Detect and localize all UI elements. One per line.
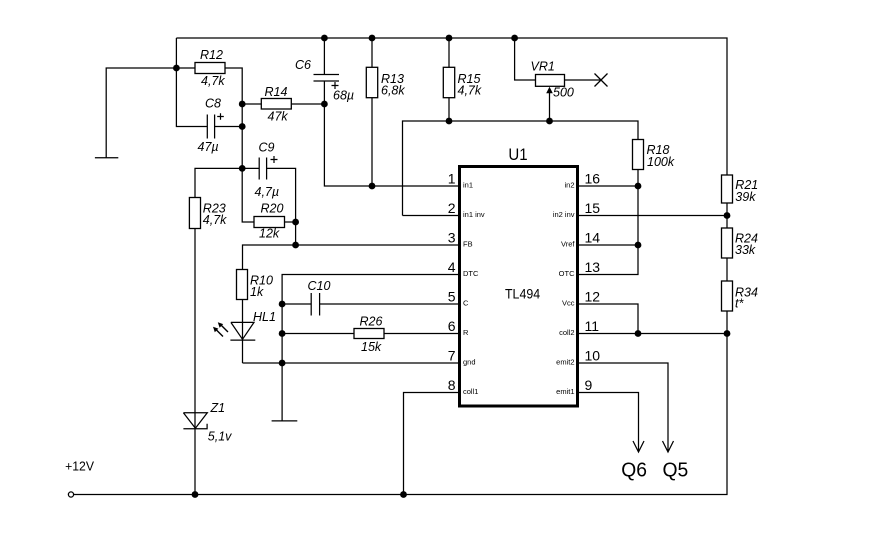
svg-text:15k: 15k <box>361 340 382 354</box>
svg-text:12k: 12k <box>259 227 280 241</box>
svg-text:10: 10 <box>585 348 601 364</box>
svg-text:3: 3 <box>448 230 456 246</box>
svg-text:500: 500 <box>553 86 574 100</box>
svg-text:+12V: +12V <box>65 459 94 474</box>
svg-text:Vref: Vref <box>561 240 575 249</box>
svg-text:t*: t* <box>735 297 744 311</box>
svg-text:33k: 33k <box>735 243 756 257</box>
svg-text:emit1: emit1 <box>556 387 574 396</box>
svg-text:1k: 1k <box>250 285 264 299</box>
svg-text:OTC: OTC <box>559 269 575 278</box>
svg-text:4,7k: 4,7k <box>458 84 482 98</box>
svg-text:8: 8 <box>448 377 456 393</box>
svg-text:emit2: emit2 <box>556 358 574 367</box>
svg-text:DTC: DTC <box>463 269 479 278</box>
svg-text:4,7µ: 4,7µ <box>255 185 280 199</box>
svg-text:Q6: Q6 <box>621 458 647 481</box>
svg-text:68µ: 68µ <box>333 89 354 103</box>
svg-text:15: 15 <box>585 200 601 216</box>
svg-text:TL494: TL494 <box>505 286 540 302</box>
svg-text:47k: 47k <box>268 110 289 124</box>
svg-text:4,7k: 4,7k <box>201 74 225 88</box>
svg-text:R20: R20 <box>261 202 284 216</box>
svg-text:5,1v: 5,1v <box>208 430 232 444</box>
svg-text:4: 4 <box>448 259 456 275</box>
svg-text:Q5: Q5 <box>663 458 689 481</box>
svg-text:11: 11 <box>585 318 600 334</box>
svg-text:1: 1 <box>448 171 456 187</box>
svg-text:Vcc: Vcc <box>562 299 575 308</box>
svg-text:Z1: Z1 <box>210 401 226 415</box>
svg-text:14: 14 <box>585 230 601 246</box>
svg-text:in2: in2 <box>564 181 574 190</box>
svg-text:4,7k: 4,7k <box>203 213 227 227</box>
svg-text:R: R <box>463 328 469 337</box>
svg-text:5: 5 <box>448 289 456 305</box>
svg-text:R12: R12 <box>200 48 223 62</box>
svg-text:coll1: coll1 <box>463 387 478 396</box>
svg-text:in1 inv: in1 inv <box>463 210 485 219</box>
svg-text:FB: FB <box>463 240 473 249</box>
svg-text:C6: C6 <box>295 58 311 72</box>
svg-text:100k: 100k <box>647 155 675 169</box>
svg-text:C8: C8 <box>205 97 221 111</box>
svg-text:7: 7 <box>448 348 456 364</box>
svg-text:U1: U1 <box>508 145 527 164</box>
svg-text:R26: R26 <box>360 315 383 329</box>
svg-text:C9: C9 <box>259 141 275 155</box>
svg-text:12: 12 <box>585 289 601 305</box>
svg-text:9: 9 <box>585 377 593 393</box>
svg-text:HL1: HL1 <box>253 310 276 324</box>
svg-text:39k: 39k <box>735 190 756 204</box>
svg-text:6,8k: 6,8k <box>381 84 405 98</box>
svg-text:C: C <box>463 299 469 308</box>
svg-text:C10: C10 <box>308 279 331 293</box>
svg-text:in2 inv: in2 inv <box>553 210 575 219</box>
svg-text:47µ: 47µ <box>198 140 219 154</box>
svg-text:in1: in1 <box>463 181 473 190</box>
svg-text:13: 13 <box>585 259 601 275</box>
svg-text:gnd: gnd <box>463 358 476 367</box>
svg-text:coll2: coll2 <box>559 328 574 337</box>
svg-text:2: 2 <box>448 200 456 216</box>
svg-text:VR1: VR1 <box>531 60 555 74</box>
svg-text:R14: R14 <box>265 85 288 99</box>
svg-text:16: 16 <box>585 171 601 187</box>
svg-text:6: 6 <box>448 318 456 334</box>
